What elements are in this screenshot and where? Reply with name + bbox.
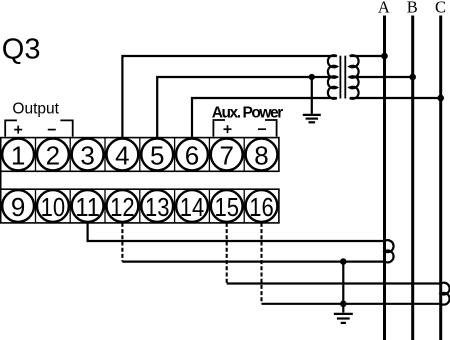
left edge connector of terminal strip — [0, 171, 2, 189]
svg-text:14: 14 — [180, 192, 205, 222]
wire secondary top to phase A — [350, 55, 385, 57]
wire terminal 15 to CT coil C top — [227, 282, 441, 284]
svg-text:Q3: Q3 — [2, 34, 41, 66]
Output polarity bracket — [5, 120, 73, 136]
svg-text:5: 5 — [150, 140, 164, 170]
svg-text:11: 11 — [75, 192, 100, 222]
svg-text:4: 4 — [115, 140, 129, 170]
wire secondary bottom to phase C — [350, 97, 441, 99]
terminal 2 — [37, 139, 69, 171]
terminal 11 — [72, 190, 104, 222]
ground wire at bottom — [342, 262, 344, 313]
svg-text:6: 6 — [185, 140, 199, 170]
CT coil on phase C — [441, 283, 450, 305]
terminal 14 — [176, 190, 208, 222]
svg-text:9: 9 — [11, 192, 25, 222]
ground symbol at bottom — [334, 314, 353, 323]
phase line B — [411, 16, 414, 340]
junction dot on CT A return — [340, 258, 347, 265]
phase line A — [383, 16, 386, 340]
terminal 12 — [107, 190, 139, 222]
terminal 1 — [2, 139, 34, 171]
phase line C — [439, 16, 442, 340]
wire terminal 6 to transformer primary bottom — [192, 98, 337, 138]
svg-text:13: 13 — [145, 192, 170, 222]
terminal 7 — [211, 139, 243, 171]
terminal 9 — [2, 190, 34, 222]
terminal 10 — [37, 190, 69, 222]
svg-text:3: 3 — [80, 140, 94, 170]
terminal strip row 2 frame — [1, 189, 279, 223]
svg-text:16: 16 — [249, 192, 274, 222]
ground symbol at transformer — [303, 115, 321, 122]
wire CT coil C return — [262, 303, 441, 305]
ground wire from primary mid — [311, 77, 313, 114]
svg-text:10: 10 — [41, 192, 66, 222]
wire secondary mid to phase B — [350, 76, 413, 78]
svg-text:8: 8 — [254, 140, 268, 170]
svg-text:12: 12 — [110, 192, 135, 222]
transformer secondary winding — [350, 55, 359, 99]
junction dot on CT C return — [340, 301, 347, 308]
Output minus sign — [48, 129, 56, 131]
Aux Power minus sign — [258, 128, 266, 130]
dashed wire from terminal 15 — [226, 223, 228, 284]
terminal 4 — [107, 139, 139, 171]
svg-text:C: C — [435, 0, 446, 17]
junction dot phase A — [381, 53, 388, 60]
CT coil on phase A — [385, 240, 394, 262]
svg-text:B: B — [407, 0, 418, 17]
junction dot phase C — [437, 95, 444, 102]
svg-text:1: 1 — [11, 140, 25, 170]
terminal 13 — [141, 190, 173, 222]
Aux Power plus sign — [224, 125, 232, 133]
terminal 6 — [176, 139, 208, 171]
terminal 8 — [246, 139, 278, 171]
svg-text:7: 7 — [219, 140, 233, 170]
dashed wire to terminal 16 — [260, 223, 262, 304]
wire terminal 11 to CT coil A top — [88, 223, 385, 241]
dashed wire to terminal 12 — [121, 223, 123, 262]
svg-text:Aux. Power: Aux. Power — [212, 104, 284, 121]
transformer core — [340, 56, 345, 99]
terminal 15 — [211, 190, 243, 222]
Aux Power polarity bracket — [213, 120, 276, 137]
terminal 5 — [141, 139, 173, 171]
terminal strip row 1 frame — [1, 138, 279, 172]
wire terminal 5 to transformer primary mid — [157, 77, 337, 138]
svg-text:Output: Output — [12, 100, 59, 117]
terminal 16 — [246, 190, 278, 222]
svg-text:15: 15 — [214, 192, 239, 222]
Output plus sign — [14, 126, 22, 134]
transformer primary winding — [328, 55, 337, 99]
svg-text:A: A — [378, 0, 390, 17]
wire CT coil A return — [122, 261, 384, 263]
junction dot phase B — [409, 74, 416, 81]
wire terminal 4 to transformer primary top — [122, 56, 336, 138]
terminal 3 — [72, 139, 104, 171]
junction dot on primary mid wire — [309, 74, 315, 80]
svg-text:2: 2 — [46, 140, 60, 170]
